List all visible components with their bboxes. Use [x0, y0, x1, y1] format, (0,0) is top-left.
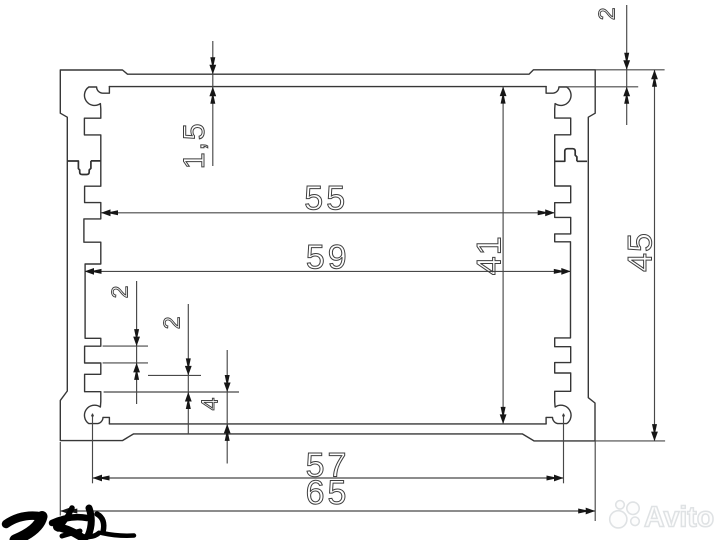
left wall screw channel (U slot) [67, 161, 101, 175]
Avito watermark logo circles [610, 501, 640, 528]
dim 45 line [654, 70, 656, 441]
svg-text:2: 2 [159, 317, 185, 330]
boss center mark left [91, 414, 94, 417]
dim 2 top-right line [626, 5, 628, 125]
calligraphy watermark character 2 [52, 517, 87, 523]
svg-text:2: 2 [594, 7, 620, 20]
calligraphy watermark stroke 1 [6, 516, 42, 524]
dim 65 extension right [594, 441, 596, 521]
outer profile outline of extrusion [60, 70, 595, 441]
svg-text:4: 4 [197, 397, 223, 410]
dim 45 extension bottom [595, 440, 665, 442]
calligraphy tail [102, 533, 134, 536]
dim 41 line [502, 87, 504, 424]
dim 57 line [93, 477, 564, 479]
svg-text:1,5: 1,5 [178, 121, 211, 169]
dim 59 line [85, 270, 571, 272]
bottom lid inner surface line [109, 423, 546, 425]
top lid inner surface line [109, 86, 546, 88]
right wall screw channel (inverted U slot) [555, 149, 587, 162]
dim 55 line [101, 212, 555, 214]
dim 2 top-right extension [559, 86, 638, 88]
dim 4 chain3 line [226, 350, 228, 464]
dim 57 extension left (boss centerline) [92, 414, 94, 484]
svg-text:55: 55 [304, 180, 348, 218]
tooth extension lines left [103, 345, 148, 347]
dim 2 chain1 line [136, 281, 138, 404]
right wall inner profile with screw bosses and grooves [546, 87, 571, 424]
svg-text:Avito: Avito [644, 502, 714, 534]
dim 2 chain2 line [187, 304, 189, 434]
svg-text:41: 41 [470, 235, 508, 275]
svg-text:2: 2 [107, 286, 133, 299]
dim 1,5 line [212, 41, 214, 166]
svg-text:59: 59 [306, 239, 350, 277]
dim 65 line [60, 510, 595, 512]
boss center mark right [562, 414, 565, 417]
dim 65 extension left [59, 442, 61, 516]
svg-text:45: 45 [621, 232, 659, 272]
left wall inner profile with screw bosses and grooves [84, 87, 110, 424]
dim 45 extension top [595, 69, 664, 71]
svg-text:65: 65 [306, 474, 350, 512]
dim 57 extension right (boss centerline) [563, 414, 565, 484]
